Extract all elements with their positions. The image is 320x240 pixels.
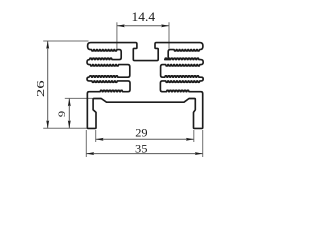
arrowhead 14.4 left (117, 24, 125, 27)
arrowhead 35 left (86, 152, 94, 155)
extension line 29 left (95, 130, 97, 142)
svg-text:9: 9 (58, 111, 68, 118)
extension line 14.4 left (116, 22, 118, 49)
arrowhead 29 right (186, 138, 194, 141)
heatsink profile outline (87, 43, 203, 129)
svg-text:35: 35 (135, 144, 148, 156)
dimension line 14.4 (117, 25, 169, 27)
extension line 26 top (43, 40, 88, 42)
arrowhead 26 bottom (46, 120, 49, 128)
dimension line 9 (68, 98, 70, 128)
extension line 35 right (202, 130, 204, 157)
arrowhead 9 top (68, 98, 71, 106)
extension line 35 left (85, 130, 87, 157)
extension line 29 right (193, 130, 195, 142)
extension line 9 top (65, 97, 93, 99)
arrowhead 26 top (46, 41, 49, 49)
svg-text:29: 29 (135, 127, 148, 139)
arrowhead 14.4 right (161, 24, 169, 27)
dimension line 26 (47, 41, 49, 128)
extension line 14.4 right (168, 22, 170, 49)
dimension line 29 (96, 138, 194, 140)
arrowhead 35 right (195, 152, 203, 155)
arrowhead 9 bottom (68, 120, 71, 128)
dimension line 35 (86, 153, 202, 155)
arrowhead 29 left (96, 138, 104, 141)
svg-text:26: 26 (36, 80, 47, 97)
extension line 26 and 9 bottom (43, 127, 87, 129)
svg-text:14.4: 14.4 (132, 9, 156, 24)
